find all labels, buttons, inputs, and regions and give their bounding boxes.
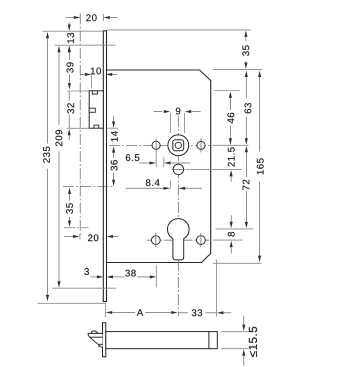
extension line case top right — [213, 69, 262, 71]
extension lines for 9mm square — [170, 113, 184, 133]
dimension A — [106, 309, 178, 316]
dimension 20 bottom left — [64, 234, 119, 241]
extension line case bottom right — [213, 262, 262, 264]
horizontal centerline y=187 (36 ref) — [63, 186, 114, 188]
dimension 39 — [67, 46, 74, 90]
extension line y=45 (13 ref) — [55, 44, 116, 46]
side view lock case bar — [106, 332, 218, 349]
dimension 20 top — [66, 14, 118, 21]
follower hub (circle with 9mm square spindle hole) — [168, 135, 189, 156]
dimension 46 — [227, 92, 234, 145]
dimension 35 left — [66, 188, 73, 227]
extension ticks for 15.5 — [221, 332, 249, 349]
faceplate (front view, 235x20) — [103, 31, 106, 302]
dimension 72 — [243, 146, 250, 228]
extension line small hole centre right — [186, 168, 242, 170]
left fixing hole at follower height — [152, 138, 160, 152]
dimension 6.5 — [126, 154, 190, 164]
extension line screw hole centre right — [213, 239, 243, 241]
extension line x=156 (38 ref) — [155, 265, 157, 287]
extension line faceplate top left — [42, 30, 103, 32]
right fixing hole at follower height — [197, 138, 205, 152]
horizontal centerline through cylinder screw holes — [147, 239, 209, 241]
horizontal centerline through follower — [109, 144, 211, 146]
extension line for 8.4 — [169, 181, 171, 189]
dimension 235 — [43, 32, 50, 301]
extension line latch top left — [67, 90, 89, 92]
dimension 36 — [111, 160, 118, 186]
dimension 14 — [111, 116, 118, 158]
dimension 3 — [84, 268, 103, 278]
extension line latch top right — [214, 90, 240, 92]
extension line cylinder centre right — [216, 228, 254, 230]
extension lines for 6.5 — [156, 150, 164, 167]
extension line x=216.5 (33 ref) — [216, 260, 218, 317]
extension line y=288 (209 ref) — [52, 287, 117, 289]
dimension 21.5 — [228, 147, 235, 181]
dimension 38 — [107, 270, 157, 279]
horizontal centerline y=228 (35 ref) — [64, 227, 89, 229]
extension line latch bottom right of faceplate — [107, 127, 118, 129]
left fixing hole at cylinder height — [151, 233, 160, 247]
euro profile cylinder hole — [168, 219, 190, 260]
extension line faceplate top right — [107, 29, 251, 31]
extension line faceplate bottom — [38, 302, 107, 304]
dimension 165 — [257, 71, 264, 262]
extension tick x=103.4 top — [102, 14, 104, 21]
extension tick x=80 at 20 dim — [79, 234, 81, 240]
extension line follower centre right — [213, 144, 249, 146]
vertical centerline x=80 (20mm reference axis) — [79, 13, 81, 237]
lock case outline with chamfered corners — [107, 70, 211, 263]
dimension 13 — [67, 22, 74, 54]
right fixing hole at cylinder height — [197, 233, 206, 247]
extension line latch bottom left — [67, 127, 89, 129]
dimension 209 — [55, 46, 62, 288]
dimension 9 — [153, 108, 200, 115]
extension line x=92 (10 ref) — [90, 74, 92, 88]
vertical centerline through follower and cylinder — [177, 116, 179, 317]
dimension 63 — [244, 71, 251, 145]
dimension 8.4 — [125, 179, 202, 190]
side view faceplate — [103, 323, 106, 357]
dimension 8 — [228, 215, 235, 253]
dimension 33 — [179, 309, 232, 316]
latch bolt head (left of faceplate) — [89, 91, 103, 128]
dimension 10 — [81, 67, 118, 75]
side view latch bolt nose — [88, 331, 102, 347]
dimension 35 right — [242, 31, 249, 69]
small hole below follower — [172, 164, 185, 174]
extension line x=105.7 (A ref) — [105, 303, 107, 317]
dimension 32 — [67, 91, 74, 140]
dimension less-equal 15.5 — [242, 316, 257, 366]
